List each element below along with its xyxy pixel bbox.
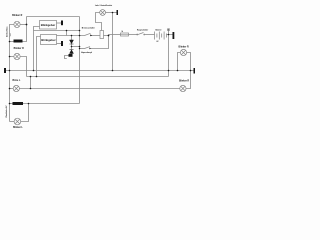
wire fuse F1 left xyxy=(10,41,14,43)
switch S3 (main switch) xyxy=(137,33,145,36)
wire riser lamp A to fuse F1 xyxy=(23,17,27,42)
lamp E (rear right top) xyxy=(180,49,186,55)
lamp F (rear right bottom) xyxy=(180,85,186,91)
Blinkgeber box 1 xyxy=(40,21,57,30)
junction wire U / riser X xyxy=(79,30,81,32)
junction bus2 / lamp feed riser xyxy=(30,76,32,78)
wire circle G stub xyxy=(168,31,170,35)
wire diode chain top xyxy=(71,36,73,41)
wire main feed right xyxy=(109,34,121,36)
end bar right of lamp K xyxy=(117,10,119,15)
svg-text:Blinkgeber: Blinkgeber xyxy=(41,23,56,27)
wire battery to plus bar xyxy=(167,34,173,36)
wire switch to battery xyxy=(145,34,155,36)
svg-text:Blinker R: Blinker R xyxy=(14,48,24,50)
wire box1 to mark1 xyxy=(57,22,62,24)
connector mark 1 xyxy=(61,21,63,26)
lamp C xyxy=(13,85,19,91)
wire box2 to mark2 xyxy=(57,43,62,45)
wire lamp K jog to fuse R xyxy=(96,13,102,31)
wire lamp A left + left rail xyxy=(10,25,14,122)
Blinkgeber box 2 xyxy=(41,35,57,45)
diode D2 (pointing up) xyxy=(70,50,74,54)
wire riser X xyxy=(79,17,81,104)
wire square jog xyxy=(65,56,69,59)
junction lamp E left leg / ground bus xyxy=(177,70,179,72)
switch S2 (lower switch) xyxy=(85,47,91,49)
wire lamp E left leg xyxy=(178,53,181,71)
fuse F2 (filled) xyxy=(13,102,24,105)
junction lamp legs riser / ground bus xyxy=(190,70,192,72)
connector square below diodes xyxy=(69,54,73,57)
wire diode mid branch to riser X xyxy=(72,46,80,48)
lamp A (front turn signal) xyxy=(14,21,20,27)
junction lamp K riser / ground bus xyxy=(112,70,114,72)
wire lamp E right leg down to lamp F xyxy=(186,53,191,89)
battery plus end bar xyxy=(173,32,175,39)
wire lamp feed to right rear lamp xyxy=(19,88,179,90)
connector mark 2 xyxy=(61,41,63,46)
wire fuse Si to main switch xyxy=(129,34,138,36)
junction diode branch / riser X xyxy=(79,46,81,48)
junction rail / lamp B xyxy=(9,56,11,58)
wire bottom from fuse F2 to riser X xyxy=(23,103,80,105)
junction lamp feed riser / feed wire xyxy=(30,88,32,90)
svg-text:Blinker R: Blinker R xyxy=(179,81,189,83)
junction battery / down riser xyxy=(168,34,170,36)
wire riser box2 stub to bus2 xyxy=(37,37,41,77)
wire lamp C left xyxy=(10,88,14,90)
fuse F1 (filled) xyxy=(14,40,23,43)
junction wire V / diode chain xyxy=(71,35,73,37)
junction bottom wire / lamp D leg xyxy=(28,103,30,105)
wire bus2 xyxy=(27,76,169,78)
svg-text:Blinkgeber: Blinkgeber xyxy=(41,38,56,42)
wire riser bus2 to lamp feed xyxy=(30,77,32,89)
lamp K (charge indicator) xyxy=(100,10,106,16)
svg-text:Hauptschalter: Hauptschalter xyxy=(137,29,149,32)
junction box1 riser / ground bus xyxy=(33,70,35,72)
svg-text:Blinker L: Blinker L xyxy=(13,127,23,129)
wire diode2 to square xyxy=(71,53,73,56)
svg-text:Birne L: Birne L xyxy=(12,80,21,82)
circle G (meter) xyxy=(167,28,170,31)
wire lamp B right leg xyxy=(20,57,26,77)
svg-text:Hupenknopf: Hupenknopf xyxy=(81,52,92,54)
svg-text:Rücklicht 6V: Rücklicht 6V xyxy=(5,105,8,118)
junction wire U / UV riser xyxy=(66,30,68,32)
wire lamp K right xyxy=(106,12,117,14)
junction rail / ground bus xyxy=(9,70,11,72)
battery (plates) xyxy=(155,32,167,40)
ground bar left xyxy=(4,68,6,73)
squiggle hook near T1 xyxy=(10,33,11,37)
junction diode mid node xyxy=(71,46,73,48)
fuse R (rect with wire through, vertical) xyxy=(100,31,104,39)
wire U under box1 xyxy=(34,30,80,32)
diode D1 (pointing down) xyxy=(70,40,74,44)
junction rail / fuse F2 xyxy=(9,103,11,105)
junction box2 riser / bus2 xyxy=(36,76,38,78)
wire lamp A right xyxy=(20,24,26,26)
wire riser box1 stub to ground xyxy=(34,27,40,71)
wire fuse R to junction xyxy=(104,35,109,37)
junction lamp K / ground riser xyxy=(112,12,114,14)
wire between diodes xyxy=(71,44,73,50)
wire V box2 output to switch S1 xyxy=(57,35,85,37)
junction S2 wire / riser X xyxy=(79,48,80,49)
junction rail / fuse F1 xyxy=(9,41,11,43)
wire riser lamp K to ground xyxy=(112,13,114,71)
wire S2 right to riser xyxy=(91,36,109,49)
svg-text:Bremsschalter: Bremsschalter xyxy=(82,26,95,29)
svg-text:Blinker R: Blinker R xyxy=(179,46,189,48)
switch S1 (brake light switch) xyxy=(85,33,91,35)
svg-text:Zündschloss: Zündschloss xyxy=(6,27,8,37)
lamp D xyxy=(14,118,21,125)
wire S2 left xyxy=(80,48,85,50)
wire ground bus xyxy=(6,70,194,72)
junction rail / lamp C xyxy=(9,88,11,90)
lamp B xyxy=(14,53,20,59)
wire fuse F2 left stub xyxy=(10,103,13,105)
wire lamp D right leg xyxy=(21,104,29,122)
junction feed node B+ xyxy=(108,35,110,37)
wire lamp B left xyxy=(10,56,14,58)
junction lamp A / top bus riser xyxy=(26,24,28,26)
wire riser battery junction down to bus2 xyxy=(168,35,170,77)
wire S1 right to fuse R xyxy=(91,35,100,37)
fuse Si (horizontal outlined) xyxy=(121,33,129,36)
junction wire V / riser X xyxy=(79,35,81,37)
junction battery riser / ground bus xyxy=(168,70,170,72)
wire riser joining U and V xyxy=(66,31,68,36)
wire lamp D left xyxy=(10,121,15,123)
ground bar right xyxy=(194,68,196,74)
wire top bus xyxy=(27,16,80,18)
svg-text:Blinker R: Blinker R xyxy=(12,15,22,17)
